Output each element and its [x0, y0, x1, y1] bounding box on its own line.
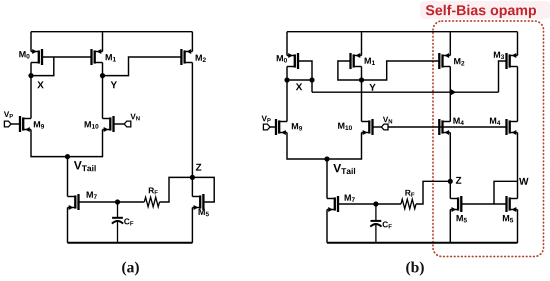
wire node Y to M2 gate [103, 57, 182, 76]
wire M1b gate wrap to Y [338, 61, 362, 80]
wire M3b source to rail [517, 32, 519, 56]
wire M7 source to ground rail [67, 208, 69, 243]
wire M0b drain to node X [286, 67, 288, 81]
transistor M3 (b) [494, 52, 518, 69]
resistor Rf (b) [401, 190, 416, 209]
wire M9b source to Vtail [287, 133, 327, 160]
wire M4 source to node Z [449, 133, 451, 182]
wire M1b drain to node Y [361, 67, 363, 81]
node V_Tail (a) [65, 154, 96, 171]
wire M10 source to Vtail [68, 130, 103, 157]
wire M7 gate to Cf node [79, 201, 118, 203]
wire M4p drain to M5p drain node W [517, 181, 519, 198]
wire M5 gate wrap to node Z [192, 177, 214, 202]
node X (b) [284, 77, 314, 90]
red dashed box self-bias opamp [433, 21, 544, 257]
transistor M5 prime [503, 196, 518, 222]
transistor M0 [19, 49, 42, 65]
transistor M2 [181, 49, 205, 65]
capacitor Cf (b) [370, 204, 391, 243]
pink halo behind title [420, 1, 550, 19]
transistor M10 (b) [338, 119, 372, 135]
wire M5-M5p shared gate [461, 203, 506, 205]
transistor M9 (b) [276, 119, 302, 135]
node X [28, 73, 43, 88]
power rail top (b) [287, 31, 518, 33]
transistor M1 [92, 49, 116, 65]
resistor Rf (a) [144, 188, 159, 207]
wire M0b gate wrap to X [298, 61, 312, 80]
wire Cf node to Rf [118, 201, 145, 203]
wire M3b drain down to M4p [517, 67, 519, 122]
node Cf junction (b) [373, 201, 378, 206]
transistor M5 (a) [192, 194, 208, 216]
wire M2b drain down to M4 [449, 67, 451, 122]
wire M1 drain to node Y [102, 63, 104, 76]
transistor M1 (b) [351, 53, 375, 69]
wire M7b source to ground [326, 210, 328, 243]
node Cf junction (a) [115, 199, 120, 204]
wire M4p source to node W [517, 133, 519, 182]
transistor M7 [68, 192, 97, 210]
wire M9 source to Vtail [31, 130, 68, 157]
wire M1 source to rail [102, 32, 104, 52]
wire M2b source to rail [449, 32, 451, 56]
input port VN (a) [114, 114, 140, 127]
wire M3b gate wrap to X-line [499, 61, 507, 92]
node W label [519, 178, 528, 185]
transistor M10 [85, 116, 114, 132]
wire M0 source to rail [30, 32, 32, 52]
node Z (a) [190, 164, 202, 180]
node Z (b) [448, 177, 462, 184]
transistor M0 (b) [277, 53, 298, 69]
wire Rf to node Z [160, 177, 193, 202]
wire node Y to M10 drain [102, 76, 104, 119]
title Self-Bias opamp [426, 5, 536, 18]
X-line long wire [312, 91, 499, 93]
wire M0 gate wrap to node X [31, 57, 54, 76]
ground rail bottom (b) [327, 242, 518, 244]
wire node X to M9b drain [286, 80, 288, 122]
wire Rf to node Z (b) [416, 181, 450, 204]
wire Vtail to M7 drain [67, 157, 69, 197]
transistor M4 [439, 118, 464, 135]
input port Vp (a) [4, 111, 20, 127]
wire node Y to M10b drain [361, 80, 363, 122]
wire M0b source to rail [286, 32, 288, 56]
wire M5 source to ground rail [191, 208, 193, 243]
wire node Z to M5 drain [191, 177, 193, 196]
wire M7b gate to Cf node [338, 203, 376, 205]
junction arrow on X-line at M2 drain [450, 89, 456, 96]
wire M0 drain to node X [30, 63, 32, 76]
wire M2 source to rail [191, 32, 193, 52]
wire M1b source to rail [361, 32, 363, 56]
input port Vp (b) [262, 116, 276, 130]
wire VN line to M4 and M4p gates [388, 126, 507, 128]
wire Vtail to M7b drain [326, 159, 328, 199]
wire Cf node to Rf (b) [376, 203, 401, 205]
transistor M4 prime [490, 118, 518, 135]
wire M10b source to Vtail [327, 133, 362, 160]
wire node Y to M2b gate [362, 61, 440, 80]
ground rail bottom (a) [68, 242, 193, 244]
wire node X down to X-line [311, 80, 313, 92]
power rail top (a) [31, 31, 192, 33]
wire M2 drain to node Z [191, 63, 193, 178]
node Y [100, 73, 117, 88]
node V_Tail (b) [324, 156, 355, 174]
caption (a) [122, 262, 139, 276]
input port VN (b) [373, 117, 393, 130]
wire node X to M9 drain [30, 76, 32, 119]
caption (b) [406, 262, 424, 276]
node Y (b) [359, 77, 376, 90]
transistor M2 (b) [439, 53, 464, 69]
transistor M5 (b) [450, 196, 467, 222]
transistor M7 (b) [327, 195, 355, 212]
capacitor Cf (a) [112, 202, 133, 243]
wire node Z to M5b drain [449, 181, 451, 198]
transistor M9 [20, 116, 44, 132]
wire M5p source to ground [517, 210, 519, 243]
wire gate tie to node W [494, 181, 518, 204]
wire M0-M1 gate [42, 56, 92, 58]
wire M5b source to ground [449, 210, 451, 243]
